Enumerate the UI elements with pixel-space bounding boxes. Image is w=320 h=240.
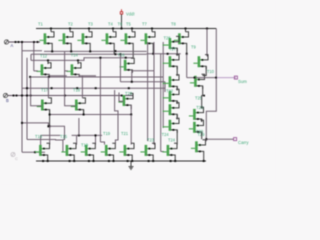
svg-text:T20: T20 xyxy=(125,91,133,96)
svg-text:T12: T12 xyxy=(40,53,48,58)
svg-text:Carry: Carry xyxy=(238,140,249,145)
svg-text:T7: T7 xyxy=(142,22,148,27)
svg-text:A: A xyxy=(11,43,14,48)
svg-text:Sum: Sum xyxy=(238,79,247,84)
svg-text:T28: T28 xyxy=(196,105,204,110)
svg-text:T19: T19 xyxy=(81,143,89,148)
svg-text:T15: T15 xyxy=(60,134,68,139)
svg-text:Vdd!: Vdd! xyxy=(126,12,135,17)
svg-text:T26: T26 xyxy=(164,36,172,41)
svg-text:T5: T5 xyxy=(126,22,132,27)
svg-text:T14: T14 xyxy=(71,52,79,57)
svg-text:C: C xyxy=(15,156,18,161)
svg-text:T4: T4 xyxy=(108,22,114,27)
svg-text:T22: T22 xyxy=(166,88,174,93)
svg-text:T17: T17 xyxy=(41,88,49,93)
svg-text:T18: T18 xyxy=(73,88,81,93)
svg-text:T9: T9 xyxy=(191,45,197,50)
svg-text:T10: T10 xyxy=(207,69,215,74)
svg-text:T21: T21 xyxy=(121,131,129,136)
svg-text:T19: T19 xyxy=(103,131,111,136)
svg-text:T2: T2 xyxy=(68,22,74,27)
svg-text:T24: T24 xyxy=(168,138,176,143)
svg-text:B: B xyxy=(6,98,9,103)
svg-text:T3: T3 xyxy=(88,22,94,27)
svg-text:T8: T8 xyxy=(171,22,177,27)
svg-text:T16: T16 xyxy=(118,53,126,58)
svg-text:T30: T30 xyxy=(196,129,204,134)
svg-text:T24: T24 xyxy=(162,132,170,137)
svg-text:T6: T6 xyxy=(118,22,124,27)
svg-text:T27: T27 xyxy=(169,47,177,52)
svg-text:T23: T23 xyxy=(147,138,155,143)
svg-text:T1: T1 xyxy=(38,22,44,27)
svg-text:T13: T13 xyxy=(35,134,43,139)
